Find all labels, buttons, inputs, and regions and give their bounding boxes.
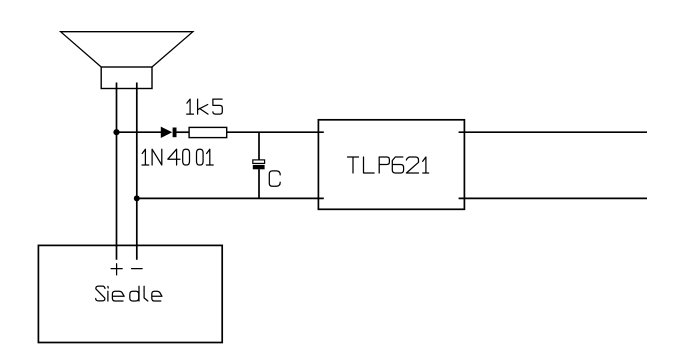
wire TLP621 output bottom — [459, 197, 647, 199]
speaker LS1 horn — [61, 32, 193, 67]
speaker LS1 driver body — [101, 67, 152, 89]
intercom unit Siedle box — [38, 245, 222, 342]
diode D1 cathode bar — [173, 128, 177, 138]
resistor R1 1k5 body — [189, 127, 227, 137]
wire capacitor top branch — [258, 132, 260, 160]
wire left speaker pin — [116, 83, 118, 260]
capacitor C top plate — [253, 160, 265, 164]
wire node B to TLP621 pin 2 — [137, 197, 324, 199]
value label 1k5 for resistor R1 — [187, 99, 223, 114]
designator label C for capacitor — [269, 171, 280, 186]
node junction A on left pin — [113, 129, 119, 135]
polarity label + — [111, 264, 122, 275]
optocoupler U1 TLP621 box — [318, 120, 464, 210]
part label TLP621 — [348, 157, 429, 173]
diode D1 1N4001 triangle — [161, 127, 171, 137]
wire resistor to TLP621 pin 1 — [227, 131, 324, 133]
wire TLP621 output top — [459, 131, 647, 133]
polarity label - — [132, 268, 143, 270]
label Siedle — [96, 286, 162, 301]
capacitor C bottom plate — [253, 165, 265, 169]
wire diode to resistor — [177, 131, 190, 133]
wire capacitor bottom branch — [258, 169, 260, 198]
part label 1N4001 for diode D1 — [142, 149, 213, 165]
wire node A to diode anode — [117, 131, 162, 133]
node junction B on right pin — [134, 195, 140, 201]
wire right speaker pin — [136, 83, 138, 260]
